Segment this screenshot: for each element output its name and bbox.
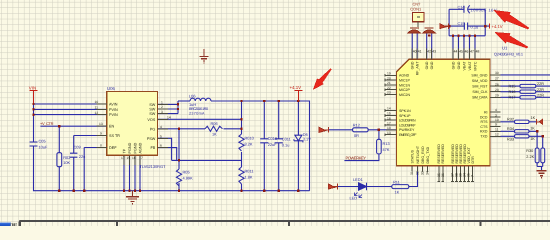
svg-text:C15: C15	[458, 22, 465, 26]
svg-text:33: 33	[421, 171, 425, 175]
svg-text:2.2K: 2.2K	[526, 155, 534, 159]
svg-text:MIC1N: MIC1N	[399, 83, 410, 87]
svg-text:AGND: AGND	[399, 74, 410, 78]
svg-text:22n: 22n	[79, 154, 86, 159]
svg-text:RXD: RXD	[480, 130, 488, 134]
svg-text:8: 8	[100, 144, 102, 148]
svg-text:1K: 1K	[530, 137, 535, 141]
svg-text:16: 16	[387, 116, 391, 120]
svg-text:PVIN: PVIN	[109, 113, 118, 117]
svg-text:Q2403GFR3_V0.1: Q2403GFR3_V0.1	[494, 52, 523, 57]
svg-text:11: 11	[495, 128, 499, 132]
svg-text:13: 13	[387, 131, 391, 135]
svg-text:R30: R30	[526, 149, 533, 153]
svg-text:0R: 0R	[354, 133, 359, 138]
svg-text:R15: R15	[509, 84, 516, 88]
svg-text:21: 21	[387, 81, 391, 85]
svg-text:R05: R05	[183, 169, 190, 174]
svg-text:43: 43	[432, 50, 436, 54]
svg-text:DBG_RXD: DBG_RXD	[421, 146, 425, 164]
svg-text:4: 4	[495, 108, 497, 112]
svg-text:28: 28	[495, 88, 499, 92]
svg-text:17: 17	[121, 156, 125, 160]
svg-text:3: 3	[161, 110, 163, 114]
svg-text:SIM_GND: SIM_GND	[471, 73, 488, 77]
svg-text:GND: GND	[457, 61, 461, 69]
svg-text:GND: GND	[430, 61, 434, 69]
svg-text:+4.1V: +4.1V	[492, 24, 503, 29]
svg-text:10: 10	[495, 118, 499, 122]
svg-text:18: 18	[387, 126, 391, 130]
svg-text:GND: GND	[451, 61, 455, 69]
svg-text:10K: 10K	[63, 160, 70, 165]
svg-text:1000uF 16V: 1000uF 16V	[471, 8, 497, 13]
svg-text:48: 48	[476, 50, 480, 54]
svg-text:R16: R16	[509, 90, 516, 94]
svg-text:22R: 22R	[537, 88, 544, 92]
svg-text:C09: C09	[74, 145, 81, 150]
svg-text:7: 7	[471, 175, 475, 177]
svg-text:6: 6	[160, 144, 162, 148]
svg-text:FB: FB	[151, 146, 156, 150]
svg-text:C05: C05	[39, 139, 46, 144]
svg-text:RTS: RTS	[480, 120, 488, 124]
svg-text:POWERKEY: POWERKEY	[346, 156, 367, 161]
svg-text:23: 23	[387, 91, 391, 95]
svg-text:SW: SW	[149, 103, 156, 107]
svg-text:+4.1V: +4.1V	[290, 85, 302, 90]
svg-text:47: 47	[470, 50, 474, 54]
svg-text:L06: L06	[189, 93, 196, 98]
svg-text:R34: R34	[507, 127, 514, 131]
svg-text:22uF: 22uF	[268, 142, 277, 147]
svg-text:STATUS: STATUS	[410, 149, 414, 163]
svg-text:40: 40	[413, 50, 417, 54]
svg-text:46: 46	[465, 50, 469, 54]
svg-text:R11: R11	[393, 179, 400, 184]
svg-text:R33: R33	[507, 138, 514, 142]
svg-text:SIM_RST: SIM_RST	[472, 85, 488, 89]
svg-text:GND: GND	[425, 61, 429, 69]
svg-text:3: 3	[495, 113, 497, 117]
svg-text:PVIN: PVIN	[109, 108, 118, 112]
svg-text:VIN: VIN	[29, 85, 36, 90]
svg-text:47K: 47K	[383, 147, 390, 152]
svg-text:DBG_TXD: DBG_TXD	[426, 146, 430, 163]
svg-text:NETLIGHT: NETLIGHT	[416, 145, 420, 163]
svg-text:PG: PG	[150, 127, 156, 131]
svg-text:R13: R13	[383, 141, 390, 146]
svg-text:LOUDSPKN: LOUDSPKN	[399, 119, 416, 123]
svg-text:22: 22	[387, 86, 391, 90]
svg-text:SW: SW	[149, 112, 156, 116]
svg-text:VBAT: VBAT	[468, 61, 472, 71]
svg-text:8.2K: 8.2K	[245, 141, 253, 146]
svg-text:44: 44	[454, 50, 458, 54]
svg-text:SPK1N: SPK1N	[399, 109, 411, 113]
svg-text:0.1u: 0.1u	[282, 142, 290, 147]
svg-text:10: 10	[95, 100, 99, 104]
svg-text:U1: U1	[502, 45, 508, 50]
svg-text:SS TR: SS TR	[109, 134, 120, 138]
svg-text:LOUDSPKP: LOUDSPKP	[399, 124, 416, 128]
svg-text:22R: 22R	[537, 82, 544, 86]
svg-text:LED1: LED1	[353, 177, 363, 182]
svg-text:DTR: DTR	[471, 156, 475, 164]
svg-text:U06: U06	[107, 86, 115, 91]
svg-text:17: 17	[387, 121, 391, 125]
svg-text:34: 34	[426, 171, 430, 175]
svg-text:C011: C011	[282, 137, 291, 142]
svg-text:2370mA: 2370mA	[189, 111, 205, 115]
svg-text:MIC1P: MIC1P	[399, 79, 410, 83]
svg-text:1K: 1K	[212, 131, 217, 136]
svg-text:RF_ANT: RF_ANT	[416, 61, 420, 76]
svg-text:RESERVED: RESERVED	[441, 144, 445, 164]
svg-text:16: 16	[132, 156, 136, 160]
svg-text:VRTC: VRTC	[473, 61, 477, 71]
svg-text:27: 27	[495, 77, 499, 81]
svg-text:R06: R06	[211, 121, 218, 126]
svg-text:45: 45	[459, 50, 463, 54]
svg-text:DCD: DCD	[480, 116, 488, 120]
svg-text:19: 19	[387, 72, 391, 76]
svg-text:7: 7	[141, 156, 143, 160]
svg-text:3.1V: 3.1V	[303, 137, 311, 142]
svg-text:RI: RI	[484, 110, 488, 114]
svg-text:15: 15	[387, 112, 391, 116]
svg-text:1K: 1K	[531, 116, 536, 120]
svg-text:AVIN: AVIN	[109, 102, 118, 106]
svg-text:R17: R17	[509, 96, 516, 100]
svg-text:9: 9	[100, 132, 102, 136]
svg-text:R010: R010	[245, 135, 255, 140]
svg-text:1.8K: 1.8K	[245, 174, 253, 179]
svg-text:SW: SW	[149, 107, 156, 111]
svg-text:SIM_CLK: SIM_CLK	[472, 90, 488, 94]
svg-text:12: 12	[495, 133, 499, 137]
svg-text:31: 31	[410, 171, 414, 175]
svg-text:EN: EN	[109, 125, 115, 129]
svg-text:R12: R12	[353, 122, 360, 127]
svg-text:4: 4	[160, 125, 162, 129]
svg-text:DEF: DEF	[109, 146, 117, 150]
svg-text:R011: R011	[245, 168, 254, 173]
svg-text:41: 41	[418, 50, 422, 54]
svg-text:2: 2	[161, 105, 163, 109]
svg-text:FSW: FSW	[147, 137, 156, 141]
svg-text:30: 30	[495, 71, 499, 75]
svg-text:VOS: VOS	[147, 118, 155, 122]
svg-text:22R: 22R	[537, 93, 544, 97]
svg-text:13: 13	[99, 122, 103, 126]
svg-text:12: 12	[95, 111, 99, 115]
svg-text:14: 14	[167, 116, 171, 120]
svg-text:CTS: CTS	[480, 125, 488, 129]
svg-text:PGND: PGND	[134, 142, 138, 153]
svg-text:PGND: PGND	[128, 142, 132, 153]
svg-text:LED: LED	[350, 196, 358, 201]
svg-text:TP: TP	[123, 148, 127, 153]
svg-text:SIM_VDD: SIM_VDD	[472, 79, 488, 83]
svg-text:PWRKEY: PWRKEY	[399, 128, 415, 132]
svg-text:TLV62130RGT: TLV62130RGT	[140, 164, 167, 169]
svg-text:14: 14	[387, 107, 391, 111]
svg-text:SIM_DATA: SIM_DATA	[472, 96, 488, 100]
svg-text:42: 42	[427, 50, 431, 54]
svg-text:R32: R32	[507, 118, 514, 122]
svg-text:11: 11	[95, 106, 99, 110]
svg-text:+V_CTR: +V_CTR	[40, 121, 54, 126]
svg-text:1: 1	[161, 101, 163, 105]
svg-text:C14: C14	[458, 6, 465, 10]
svg-text:CON1: CON1	[410, 7, 421, 12]
svg-text:26: 26	[495, 82, 499, 86]
svg-text:4.99K: 4.99K	[183, 175, 194, 180]
svg-text:15: 15	[127, 156, 131, 160]
svg-text:9: 9	[495, 123, 497, 127]
svg-text:MIC2N: MIC2N	[399, 93, 410, 97]
svg-text:C010: C010	[268, 136, 278, 141]
svg-text:1K: 1K	[395, 190, 400, 195]
svg-text:32: 32	[416, 171, 420, 175]
svg-text:20: 20	[387, 76, 391, 80]
svg-text:10uF: 10uF	[39, 145, 48, 150]
svg-text:0.1u: 0.1u	[471, 25, 479, 30]
svg-text:36: 36	[441, 173, 445, 177]
svg-text:TXD: TXD	[480, 135, 488, 139]
svg-text:VBAT: VBAT	[462, 61, 466, 71]
svg-text:AGND: AGND	[139, 142, 143, 153]
svg-text:GND: GND	[411, 61, 415, 69]
svg-text:MIC2P: MIC2P	[399, 88, 410, 92]
svg-text:29: 29	[495, 94, 499, 98]
svg-text:EMERG_OFF: EMERG_OFF	[399, 133, 417, 137]
svg-text:5: 5	[160, 134, 162, 138]
svg-text:SPK1P: SPK1P	[399, 114, 411, 118]
svg-text:1K: 1K	[530, 127, 535, 131]
